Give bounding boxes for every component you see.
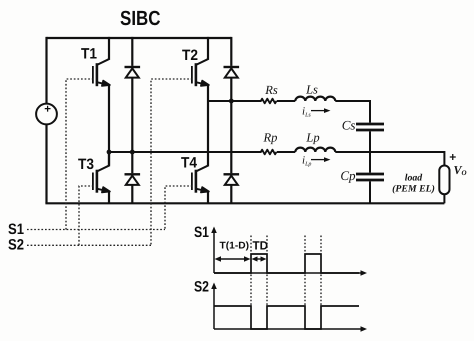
svg-text:TD: TD (253, 239, 269, 253)
svg-text:Cs: Cs (342, 117, 356, 132)
inductor Ls (295, 97, 335, 101)
diode D3 (125, 152, 141, 203)
wire load drop (443, 151, 445, 166)
dotted marker lines pulse1 (250, 236, 252, 253)
svg-text:Cp: Cp (340, 168, 356, 183)
wire Rp-Lp (277, 151, 296, 153)
transistor T2 (192, 37, 209, 166)
arrow T(1-D) span (217, 258, 248, 260)
gate wire T1 (dashed) (66, 79, 94, 230)
timing S1 y-axis (213, 231, 215, 273)
svg-text:load: load (405, 173, 424, 184)
svg-text:Ls: Ls (305, 82, 318, 96)
wire capacitor column upper (369, 100, 371, 123)
svg-text:iLp: iLp (302, 155, 311, 168)
inductor Lp (295, 148, 335, 152)
timing S1 waveform (214, 254, 359, 273)
wire Lp to load (335, 151, 444, 153)
timing S2 waveform (214, 306, 359, 329)
arrow TD span (254, 258, 264, 260)
svg-text:+: + (449, 150, 456, 164)
gate wire T3 (dashed) (79, 186, 94, 245)
gate wire T4 (dashed) (165, 186, 193, 230)
wire top rail (47, 37, 232, 39)
node junction T1-T3 (107, 150, 112, 155)
svg-text:Rp: Rp (263, 130, 278, 144)
timing S2 x-axis (214, 328, 361, 330)
resistor Rs (261, 99, 277, 104)
wire top branch to Rs (208, 100, 262, 102)
dotted marker lines pulse2 (304, 236, 306, 253)
svg-text:T4: T4 (181, 154, 198, 171)
svg-text:+: + (44, 103, 51, 115)
diode D2 (224, 37, 240, 173)
source V1 circle (36, 104, 57, 125)
timing S1 x-axis (214, 272, 361, 274)
svg-text:VO: VO (454, 163, 467, 177)
wire left rail upper (45, 37, 47, 104)
arrow iLs (311, 110, 325, 112)
transistor T1 (93, 37, 110, 166)
net S1 line (dashed) (27, 229, 165, 231)
svg-text:S1: S1 (8, 221, 24, 238)
resistor Rp (261, 150, 277, 155)
svg-text:S1: S1 (194, 224, 209, 241)
svg-text:Rs: Rs (264, 83, 278, 97)
node junction D2 branch (229, 99, 234, 104)
diode D1 (125, 37, 141, 152)
diode D4 (224, 174, 240, 203)
wire Rs-Ls (277, 100, 296, 102)
svg-text:T(1-D): T(1-D) (220, 240, 250, 251)
wire capacitor column middle (369, 131, 371, 172)
transistor T3 (93, 152, 110, 203)
wire left rail lower (45, 124, 47, 203)
svg-text:T3: T3 (78, 156, 94, 173)
wire Ls to column (335, 100, 370, 102)
timing S2 y-axis (213, 287, 215, 329)
svg-text:SIBC: SIBC (120, 7, 161, 30)
gate wire T2 (dashed) (151, 79, 193, 245)
net S2 line (dashed) (27, 244, 151, 246)
arrow iLp (311, 159, 325, 161)
svg-text:(PEM EL): (PEM EL) (392, 183, 435, 194)
capacitor Cs (356, 124, 384, 130)
svg-text:T1: T1 (81, 46, 97, 63)
capacitor Cp (356, 174, 384, 180)
wire capacitor column lower (369, 181, 371, 203)
svg-text:T2: T2 (182, 47, 198, 64)
svg-text:S2: S2 (194, 279, 209, 296)
svg-text:iLs: iLs (302, 106, 311, 119)
load resistor (PEM EL) (439, 166, 449, 195)
wire load bottom (443, 194, 445, 203)
wire mid branch to Rp (109, 151, 262, 153)
transistor T4 (192, 165, 209, 203)
wire bottom rail (45, 202, 444, 204)
svg-text:Lp: Lp (305, 130, 319, 144)
node junction D1-D3 (130, 150, 135, 155)
svg-text:S2: S2 (8, 237, 24, 254)
